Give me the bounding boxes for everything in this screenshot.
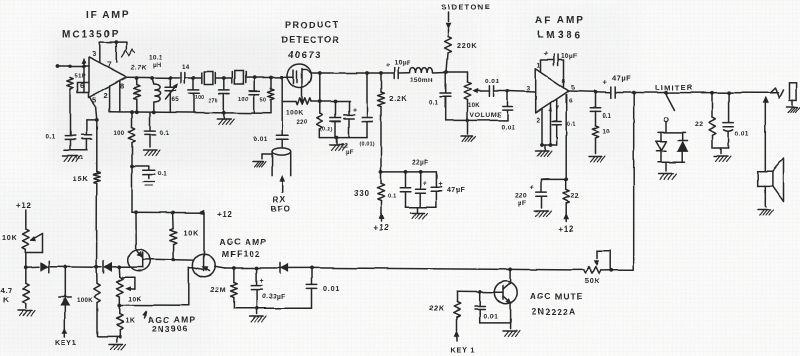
node coil <box>150 76 154 80</box>
inductor 10.1uH <box>152 78 160 112</box>
node 50K <box>609 268 613 272</box>
node base 0.01 <box>478 290 482 294</box>
svg-text:2: 2 <box>104 91 109 100</box>
wire gate line <box>151 258 193 261</box>
label pin 4 af <box>549 108 554 115</box>
2N2222 emitter <box>503 296 511 303</box>
label pin 2 af <box>537 117 542 124</box>
svg-text:2.7K: 2.7K <box>131 65 147 72</box>
capacitor 0.1 input bypass <box>65 89 75 139</box>
node det rail left <box>318 71 322 75</box>
node AF input <box>506 89 510 93</box>
node A <box>68 64 72 68</box>
svg-text:0.1: 0.1 <box>158 171 168 178</box>
svg-text:RX: RX <box>273 195 286 204</box>
label pin 6 af <box>569 98 574 105</box>
svg-text:0.01: 0.01 <box>323 284 340 293</box>
connector jack <box>790 83 797 101</box>
wire left diode bottom <box>660 151 662 162</box>
plus 47uF decouple <box>439 181 444 188</box>
svg-text:AGC AMP: AGC AMP <box>219 237 267 247</box>
wire pin 6 down <box>565 95 567 179</box>
label 330 <box>354 189 370 198</box>
capacitor 0.01 series AF <box>481 86 508 96</box>
svg-text:VOLUME: VOLUME <box>470 112 502 119</box>
wire base line <box>457 291 495 294</box>
potentiometer 50K <box>570 267 611 274</box>
svg-text:+: + <box>260 278 265 285</box>
switch lever <box>666 94 675 110</box>
10K gate wiper <box>123 277 135 290</box>
wire decouple rail <box>381 171 436 173</box>
wire AGC rail <box>312 268 571 270</box>
2N3906 lower diagonal <box>129 266 142 268</box>
wire diodes to gnd <box>665 162 667 171</box>
node supply rail left <box>24 265 28 269</box>
label pin 3 <box>92 50 97 59</box>
svg-text:+: + <box>439 181 444 188</box>
arrow +12 agc <box>199 210 205 215</box>
wire 15K to AGC rail <box>96 184 98 268</box>
capacitor 10uF series <box>394 68 398 79</box>
ground volume <box>461 119 476 142</box>
label 0.01 AF series <box>485 78 499 85</box>
label 4.7K <box>1 286 13 305</box>
label pin 3 af <box>527 86 532 93</box>
node decouple 2 <box>418 170 422 174</box>
wire pin 2 down <box>109 86 111 112</box>
svg-text:2N2222A: 2N2222A <box>532 307 576 317</box>
wire key1 below <box>64 306 66 330</box>
svg-text:47µF: 47µF <box>612 74 631 83</box>
resistor 22M <box>231 268 238 308</box>
wire det bottom rail <box>320 137 367 139</box>
capacitor 0.33uF <box>251 268 261 308</box>
capacitor 0.1 pin6 bypass <box>81 135 91 139</box>
wire output line <box>615 92 778 94</box>
resistor 330 <box>377 172 384 214</box>
label pin 1 <box>537 63 542 70</box>
node rail gnd <box>222 111 226 115</box>
label 51P <box>75 74 87 80</box>
label pin 6 <box>80 81 85 90</box>
svg-text:10: 10 <box>603 129 611 135</box>
wire key1 down <box>64 267 66 297</box>
svg-text:6: 6 <box>569 98 574 105</box>
resistor 51P <box>67 78 73 90</box>
label 270 <box>208 98 218 104</box>
svg-text:65: 65 <box>172 97 180 104</box>
node 0.1 top <box>334 100 338 104</box>
label 0.1 pin7 <box>567 122 577 128</box>
wire pin 7 up <box>115 42 117 62</box>
label 0.1 decouple <box>388 194 396 200</box>
node 10K top <box>171 211 175 215</box>
wire jog to jack <box>770 88 783 98</box>
label 0.01 output <box>735 131 749 138</box>
label 22uF decouple <box>412 160 429 167</box>
svg-text:AF AMP: AF AMP <box>535 15 585 26</box>
node key tap <box>63 265 67 269</box>
svg-text:10K: 10K <box>468 103 480 109</box>
svg-text:0.01: 0.01 <box>485 78 499 85</box>
wire right diode bottom <box>682 152 684 163</box>
svg-text:7: 7 <box>107 60 112 69</box>
ground agc <box>250 308 267 321</box>
wire pin 6 step down <box>77 83 79 93</box>
label 10 zobel <box>603 129 611 135</box>
svg-text:0.1: 0.1 <box>430 101 440 107</box>
wire cap to rail <box>85 139 87 150</box>
wire diode box bottom <box>658 161 685 163</box>
svg-text:22µF: 22µF <box>412 160 429 167</box>
capacitor 0.1 IF bypass <box>145 112 155 147</box>
svg-text:10.1: 10.1 <box>149 54 163 61</box>
svg-text:+12: +12 <box>217 210 233 219</box>
wire pin3 top rail <box>100 41 127 43</box>
svg-text:SIDETONE: SIDETONE <box>441 3 491 12</box>
wire pin 4 down af <box>550 103 552 145</box>
wire pin 6 step right <box>78 92 90 94</box>
wire volume gnd rail <box>446 119 508 121</box>
wire pin 8 down <box>119 81 121 112</box>
resistor 15K <box>93 172 100 184</box>
svg-text:K: K <box>3 296 9 305</box>
2N2222 base bar <box>502 286 504 299</box>
svg-text:+12: +12 <box>374 223 390 232</box>
wire decouple gnd rail <box>406 206 437 208</box>
node stub <box>130 164 134 168</box>
svg-text:0.01: 0.01 <box>735 131 749 138</box>
wire 15K line <box>96 120 98 172</box>
crystal Y1 <box>202 72 216 85</box>
wire crystal2 to detector <box>245 76 287 78</box>
wire to diode2 <box>97 266 102 268</box>
resistor 220K <box>445 29 452 73</box>
BFO ground stub <box>253 154 272 167</box>
wire coil to node <box>433 71 447 74</box>
wire to 3906 base <box>119 266 129 268</box>
node 22M <box>232 266 236 270</box>
node 10K gate <box>171 258 175 262</box>
label pin 5 af <box>571 85 576 92</box>
40673 gate bars <box>288 70 297 84</box>
node res 50 <box>269 76 273 80</box>
MFF102 gate arrow <box>203 267 210 271</box>
node pin4 gnd <box>549 143 553 147</box>
svg-text:220: 220 <box>297 120 308 126</box>
ground LM386 <box>536 145 552 157</box>
wire pin 5 down <box>90 97 97 120</box>
svg-text:µF: µF <box>346 150 354 156</box>
svg-text:330: 330 <box>354 189 370 198</box>
wire det to rail <box>319 73 321 102</box>
wire crystal1 to node <box>215 77 232 79</box>
node BFO junction <box>280 75 284 79</box>
svg-text:22K: 22K <box>429 303 445 312</box>
label pin 8 af <box>562 78 567 85</box>
node 220 top <box>318 100 322 104</box>
ground det <box>330 138 347 150</box>
ground speaker <box>758 210 773 216</box>
resistor 22 supply <box>563 179 569 214</box>
label 2N3906 <box>152 324 189 334</box>
svg-text:PRODUCT: PRODUCT <box>285 20 340 30</box>
capacitor 0.01 output <box>723 93 733 148</box>
svg-text:0.01: 0.01 <box>254 136 268 143</box>
capacitor 14 series <box>181 73 185 84</box>
resistor 220 det <box>317 102 323 138</box>
svg-text:14: 14 <box>182 64 190 71</box>
label VOLUME <box>470 112 502 119</box>
svg-text:100: 100 <box>195 95 204 101</box>
label KEY 1 mute <box>451 346 476 355</box>
2N3906 base bar <box>142 252 144 267</box>
label 47uF out <box>612 74 631 83</box>
capacitor 0.01 AF shunt <box>502 91 512 120</box>
transistor Q3 2N2222A body <box>495 281 517 303</box>
svg-text:4.7: 4.7 <box>1 286 13 295</box>
node cap C <box>252 76 256 80</box>
label MC1350P <box>62 29 120 40</box>
wire pin 3 up <box>99 42 101 63</box>
label 2.7K <box>131 65 147 72</box>
2N3906 collector lead <box>135 212 137 249</box>
svg-text:10K: 10K <box>184 229 200 238</box>
ground 100K <box>109 336 126 350</box>
node 22 res <box>710 91 714 95</box>
label 2.2K <box>389 94 407 103</box>
label pin 5 <box>93 95 98 104</box>
label LIMITER <box>655 83 693 92</box>
wire mute gnd rail <box>480 322 510 324</box>
wire +12 left down <box>25 211 27 230</box>
inductor 150mH <box>410 67 433 72</box>
label 0.1 small <box>76 155 84 161</box>
wire switch down <box>665 122 667 133</box>
wire AGC tap down <box>633 93 635 270</box>
wire 100K gnd rail <box>97 335 120 337</box>
wire out gnd rail <box>712 147 729 149</box>
2N2222 collector <box>503 269 511 289</box>
capacitor 0.01 BFO <box>276 102 288 149</box>
resistor 50 <box>268 78 274 114</box>
wire speaker down <box>764 186 766 206</box>
label 100K det <box>286 110 304 117</box>
label pin 8 <box>120 82 125 91</box>
plus 47uF <box>603 78 608 87</box>
svg-text:0.01: 0.01 <box>484 314 498 321</box>
svg-text:3: 3 <box>92 50 97 59</box>
ground output <box>714 148 731 162</box>
speaker feed arrow <box>763 97 768 171</box>
svg-text:KEY 1: KEY 1 <box>451 346 476 355</box>
label 0.01 agc <box>323 284 340 293</box>
MFF102 drain lead <box>203 213 205 258</box>
svg-text:(0.1): (0.1) <box>321 127 333 133</box>
wire drain out <box>311 72 394 74</box>
label 1K <box>126 318 136 325</box>
node agc gnd <box>255 306 259 310</box>
svg-text:AGC MUTE: AGC MUTE <box>530 291 583 301</box>
node trimmer <box>168 76 172 80</box>
svg-text:270: 270 <box>208 98 218 104</box>
label BFO <box>271 205 291 214</box>
label +12 agc <box>217 210 233 219</box>
label MFF102 <box>222 249 261 259</box>
wire +12 line <box>132 211 204 214</box>
capacitor 0.1 stub <box>132 166 155 186</box>
arrow KEY1 mute <box>455 331 460 341</box>
diode D1 limiter <box>656 141 666 151</box>
label 100 A <box>195 95 204 101</box>
diode D4 rail <box>40 261 49 273</box>
label 22uF det <box>341 144 354 157</box>
node 0.01 out <box>727 91 731 95</box>
capacitor 10uF gain <box>541 55 564 88</box>
label LM386 <box>537 30 583 41</box>
label 0.1 volume <box>430 101 440 107</box>
label 0.01 BFO <box>254 136 268 143</box>
label KEY1 left <box>55 338 77 347</box>
label 14 <box>182 64 190 71</box>
wire node to pot <box>447 71 468 73</box>
svg-text:+: + <box>603 78 608 87</box>
svg-text:22: 22 <box>695 121 704 128</box>
capacitor 0.1 pin7 <box>552 99 561 145</box>
svg-text:40673: 40673 <box>288 50 322 61</box>
wire pot to rail <box>25 249 27 267</box>
node det gnd <box>335 136 339 140</box>
svg-text:2.2K: 2.2K <box>389 94 407 103</box>
label 47uF decouple <box>447 188 465 195</box>
node zobel <box>594 90 598 94</box>
label 0.01 AF shunt <box>501 125 515 132</box>
svg-text:50K: 50K <box>585 276 601 285</box>
wire right diode top <box>682 132 684 140</box>
node rail coil <box>152 111 156 115</box>
plus 0.33uF <box>260 278 265 285</box>
label 0.33uF <box>262 294 286 301</box>
capacitor 0.1 decouple <box>400 172 410 207</box>
label 22M <box>210 286 226 295</box>
node input <box>56 64 60 68</box>
ground jack <box>787 100 800 112</box>
op-amp U2 LM386 triangle <box>536 69 569 113</box>
40673 source lead <box>301 86 303 102</box>
svg-text:47µF: 47µF <box>447 188 465 195</box>
svg-text:8: 8 <box>120 82 125 91</box>
node cap A <box>192 76 196 80</box>
diode D3 agc rail <box>280 262 288 273</box>
svg-text:+: + <box>353 107 358 114</box>
ground limiter <box>659 174 677 180</box>
label AGC AMP pnp <box>148 315 196 325</box>
label 50 <box>260 98 267 104</box>
svg-text:10K: 10K <box>129 296 142 303</box>
svg-text:100: 100 <box>114 131 125 137</box>
wire pin 2 down af <box>541 109 543 145</box>
capacitor 22uF det <box>344 102 354 138</box>
label 150mH <box>410 77 433 84</box>
node pin6 supply <box>564 177 568 181</box>
capacitor 100 C <box>249 78 259 114</box>
node 2.7K <box>135 76 139 80</box>
svg-text:+: + <box>530 182 535 191</box>
diode D2 limiter <box>678 141 688 152</box>
arrow AGC input marker <box>82 59 86 67</box>
label 220uF <box>515 193 528 208</box>
label 10K gate <box>129 296 142 303</box>
2N3906 emitter arrow <box>136 249 142 257</box>
capacitor 100 A <box>188 78 198 113</box>
svg-text:50: 50 <box>260 98 267 104</box>
ground 220uF <box>535 211 552 217</box>
wire left diode top <box>660 132 662 141</box>
wire diode box top <box>658 131 685 133</box>
label 40673 <box>288 50 322 61</box>
node pin3 rail <box>114 40 118 44</box>
resistor 10 zobel <box>592 125 598 153</box>
op-amp U1 MC1350P triangle <box>89 58 127 98</box>
svg-text:+: + <box>544 49 549 58</box>
capacitor 0.1 zobel <box>590 92 600 126</box>
wire decoupling corner <box>126 42 128 49</box>
wire agc gnd rail <box>234 307 312 309</box>
svg-text:+12: +12 <box>16 202 32 211</box>
label 10K left <box>2 233 18 242</box>
node AGC tap <box>632 91 636 95</box>
label +12 left <box>16 202 32 211</box>
wire gnd rail <box>64 149 87 151</box>
plus 22uF det <box>353 107 358 114</box>
svg-text:IF AMP: IF AMP <box>86 10 130 21</box>
svg-text:KEY1: KEY1 <box>55 338 77 347</box>
svg-text:100K: 100K <box>77 297 93 304</box>
wire gate2 down <box>281 77 283 101</box>
capacitor 22uF decouple <box>415 172 425 207</box>
wire source stub <box>189 266 194 268</box>
label +12 det <box>374 223 390 232</box>
50K wiper <box>594 251 610 268</box>
node B <box>82 64 86 68</box>
svg-text:0.1: 0.1 <box>160 130 170 137</box>
40673 channel bar <box>301 69 303 86</box>
label SIDETONE <box>441 3 491 12</box>
wire pin 6 stub <box>78 82 89 84</box>
node pin2 gnd <box>540 143 544 147</box>
MFF102 gate bar <box>203 257 205 271</box>
label 15K <box>72 174 88 183</box>
potentiometer 10K left <box>23 229 30 249</box>
label AGC MUTE <box>530 291 583 301</box>
ground IF rail <box>217 113 234 125</box>
resistor 22 output <box>709 93 716 148</box>
label 0.1 left <box>46 134 56 141</box>
label 10uF <box>395 60 411 67</box>
svg-text:BFO: BFO <box>271 205 291 214</box>
label 2N2222A <box>532 307 576 317</box>
svg-text:0.1: 0.1 <box>388 194 396 200</box>
resistor 100K agc <box>94 267 100 336</box>
node 15K rail <box>95 265 99 269</box>
label 0.01 mute <box>484 314 498 321</box>
wire JFET drain out rail <box>215 266 312 268</box>
svg-text:2: 2 <box>537 117 542 124</box>
label 0.1 stub <box>158 171 168 178</box>
node 100ohm <box>130 110 134 114</box>
arrow KEY1 left <box>62 328 67 337</box>
